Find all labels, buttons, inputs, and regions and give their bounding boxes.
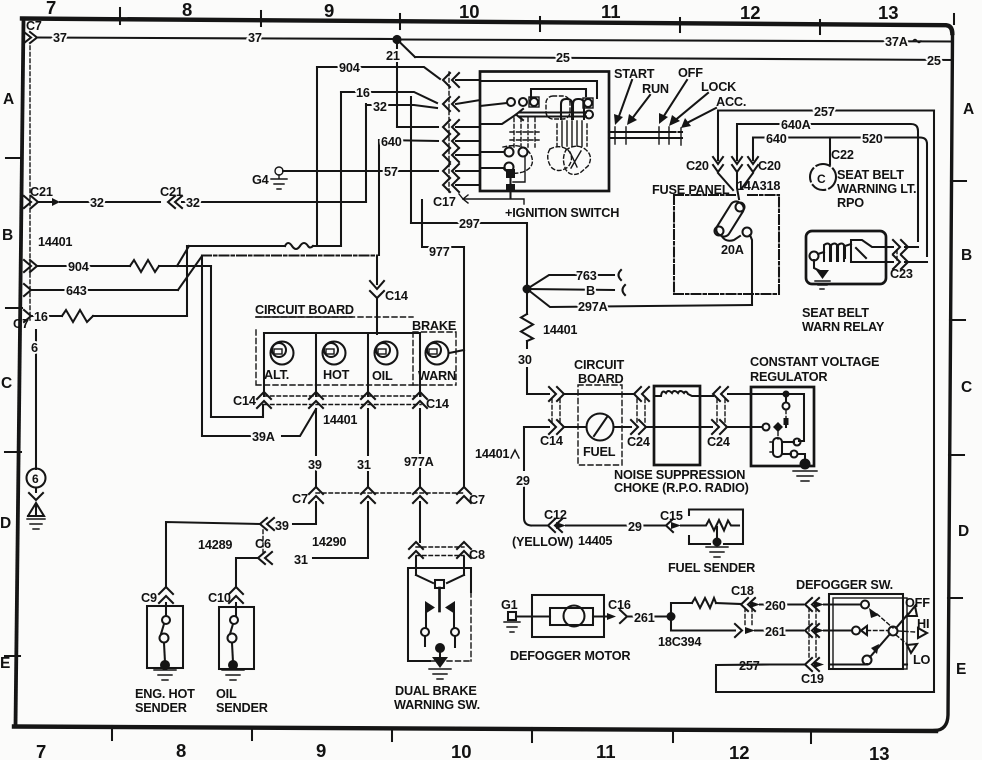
contact strip left chevron (516, 109, 523, 120)
C12 chevrons (548, 519, 555, 532)
switch pivot square (435, 580, 444, 588)
left flag contact (425, 601, 435, 614)
lamp column OIL (367, 333, 369, 396)
bottom ruler tick 1 (111, 726, 113, 740)
fuel feed chevrons C14 bottom row (549, 420, 556, 434)
svg-text:FUEL: FUEL (583, 445, 616, 459)
wire 29/C14 bottom row into board (524, 426, 549, 428)
border frame left (16, 20, 24, 726)
svg-text:C24: C24 (707, 435, 730, 449)
svg-text:640A: 640A (781, 118, 811, 132)
top ruler tick 2 (260, 11, 262, 26)
svg-text:21: 21 (386, 49, 400, 63)
indicator lamp HOT (323, 342, 346, 365)
regulator lower input contact (763, 424, 770, 431)
svg-text:C17: C17 (433, 195, 456, 209)
svg-text:SENDER: SENDER (216, 701, 268, 715)
C17 chevron pair 3 (443, 120, 459, 134)
svg-text:WARNING SW.: WARNING SW. (394, 698, 480, 712)
sender ground dot (160, 660, 170, 670)
svg-text:39: 39 (308, 458, 322, 472)
svg-text:WARNING LT.: WARNING LT. (837, 182, 916, 196)
right border tick DE (948, 597, 962, 599)
connector C20 V-arrow right (748, 157, 758, 164)
svg-text:START: START (614, 67, 655, 81)
LO ray (896, 635, 907, 644)
regulator divider chain (785, 394, 787, 402)
lamp column HOT (315, 333, 317, 396)
choke lower pass-through (654, 426, 700, 428)
wire into gauge (564, 426, 586, 428)
svg-text:39: 39 (275, 519, 289, 533)
wire 39A to diagonal (282, 409, 316, 436)
solenoid loops (561, 99, 572, 119)
lower-left terminal circle c (505, 163, 514, 172)
svg-text:257: 257 (739, 659, 760, 673)
wire 763 (527, 275, 614, 289)
wire 904 to riser (159, 265, 211, 267)
svg-text:C9: C9 (141, 591, 157, 605)
C15 chevron (666, 519, 673, 532)
wire 257 top run (718, 111, 934, 161)
sender ground bars (154, 670, 176, 680)
fuel sender box (689, 510, 743, 545)
right contact circle (451, 628, 459, 636)
connector C7 at left border (wire 37) (24, 32, 31, 43)
C14 row chevrons ALT (257, 392, 271, 399)
svg-text:A: A (3, 91, 14, 108)
svg-text:763: 763 (576, 269, 597, 283)
svg-text:C19: C19 (801, 672, 824, 686)
svg-text:32: 32 (373, 100, 387, 114)
svg-text:B: B (2, 227, 13, 244)
wire 32 top horizontal (366, 105, 437, 108)
C17 chevron pair 5 (443, 148, 459, 162)
wire 31 elbow to C6 (313, 502, 368, 558)
svg-text:BRAKE: BRAKE (412, 319, 456, 333)
C7 chevrons col 31 (361, 487, 375, 494)
C24 dashed links right (717, 399, 725, 423)
bottom ruler tick 4 (531, 728, 533, 742)
left border tick AB (6, 157, 22, 159)
riser x202 down to 39A (201, 256, 203, 437)
svg-text:18C394: 18C394 (658, 635, 701, 649)
lower-left terminal circle b (519, 148, 528, 157)
wire G1 to motor (516, 615, 550, 617)
svg-text:8: 8 (176, 740, 186, 760)
svg-text:6: 6 (31, 341, 38, 355)
regulator heater element (777, 432, 779, 439)
wire 6 vertical (35, 330, 37, 469)
cross line with choke squiggle (187, 245, 341, 247)
wire 904 top horizontal (317, 67, 440, 79)
dash-dot cross line (202, 254, 377, 256)
svg-text:C20: C20 (686, 159, 709, 173)
fuse 20A body (714, 199, 746, 239)
right border tick BC (950, 319, 965, 321)
diagonal 643 up (178, 256, 202, 290)
wire 39 to eng hot sender (166, 522, 260, 587)
lever ticks (615, 127, 681, 145)
oil sender blade (230, 624, 233, 634)
indicator lamp WARN (426, 342, 449, 365)
feed into circuit board bus (376, 299, 378, 334)
C19 chevrons row 257 (805, 658, 812, 671)
svg-text:C10: C10 (208, 591, 231, 605)
svg-text:C14: C14 (233, 394, 256, 408)
motor armature rect (550, 608, 593, 625)
ignition switch terminal circle 2 (519, 98, 527, 106)
wire 39 elbow to C6 (293, 502, 316, 524)
bottom ruler tick 6 (810, 730, 812, 743)
branch up to 260 with resistor (671, 603, 692, 617)
svg-text:14401: 14401 (475, 447, 509, 461)
ignition switch terminal circle 1 (507, 98, 515, 106)
wire 29 vertical (524, 427, 531, 526)
wire 977 into switch (463, 557, 465, 575)
svg-text:31: 31 (357, 458, 371, 472)
top ruler tick 4 (539, 17, 541, 31)
dashed connector line inside left border (29, 46, 31, 320)
wire 977A vertical (419, 409, 421, 487)
svg-text:SEAT BELT: SEAT BELT (837, 168, 904, 182)
fuel sender resistor (700, 520, 739, 531)
C6 dashed link (262, 530, 264, 552)
oil sender lead (235, 603, 237, 616)
right flag contact (445, 601, 455, 614)
wire 16 with resistor (31, 315, 62, 317)
svg-text:977A: 977A (404, 455, 434, 469)
top ruler tick 7 (953, 14, 955, 24)
ignition switch terminal circle 4 with pad (583, 98, 593, 108)
svg-text:13: 13 (869, 743, 890, 760)
wire 763 end half-connector (619, 270, 622, 280)
svg-text:DEFOGGER MOTOR: DEFOGGER MOTOR (510, 649, 630, 663)
right border tick AB (951, 180, 966, 182)
svg-text:LOCK: LOCK (701, 80, 737, 94)
riser joining 16 row to cross line (186, 246, 188, 316)
LO triangle (907, 644, 917, 653)
svg-text:14289: 14289 (198, 538, 232, 552)
connector C20 V-arrow middle (732, 157, 742, 164)
C18 arrows bottom (point right) (735, 624, 742, 637)
C14 dashed links (552, 399, 560, 423)
svg-text:C23: C23 (890, 267, 913, 281)
choke coil (654, 391, 700, 396)
resistor on 904 (130, 260, 159, 272)
relay coil (818, 244, 851, 262)
wire 16 top horizontal (341, 92, 437, 103)
small bottom trace (513, 156, 525, 182)
oil sender box (219, 607, 254, 669)
wire 32 left segment (60, 201, 160, 203)
dash-dot 261 to pivot (867, 630, 888, 632)
oil sender ground bars (222, 670, 244, 680)
lever to LO contact (870, 634, 890, 657)
svg-text:NOISE SUPPRESSION: NOISE SUPPRESSION (614, 468, 745, 482)
svg-text:CHOKE (R.P.O. RADIO): CHOKE (R.P.O. RADIO) (614, 481, 749, 495)
svg-text:C21: C21 (160, 185, 183, 199)
wire 30 resistor (526, 289, 528, 314)
C14 row chevrons WARN (413, 392, 427, 399)
left contact circle (421, 628, 429, 636)
svg-text:977: 977 (429, 245, 450, 259)
wire 261 from C16 (627, 615, 668, 617)
wire 297A (527, 289, 752, 307)
relay output wires to C23 (886, 247, 927, 262)
svg-text:640: 640 (381, 135, 402, 149)
svg-text:14405: 14405 (578, 534, 612, 548)
svg-text:ACC.: ACC. (716, 95, 746, 109)
C18 chevrons top (741, 598, 748, 611)
C17 chevron pair 6 (443, 164, 459, 178)
svg-text:C22: C22 (831, 148, 854, 162)
svg-text:C24: C24 (627, 435, 650, 449)
wire 32 mid segment (182, 201, 366, 203)
stem to box bottom (509, 178, 511, 198)
svg-text:C14: C14 (540, 434, 563, 448)
sender switch blade (161, 624, 164, 634)
wire 640 horizontal (379, 140, 438, 141)
OFF triangle (907, 606, 917, 616)
svg-text:14401: 14401 (543, 323, 577, 337)
svg-text:CIRCUIT BOARD: CIRCUIT BOARD (255, 303, 354, 317)
dashed rounded pocket (546, 96, 570, 119)
wire 977A into switch (416, 502, 420, 575)
ignition switch box (480, 72, 609, 192)
ground G4 (275, 167, 283, 175)
filled dot at box bottom (506, 184, 515, 192)
svg-text:37A: 37A (885, 35, 908, 49)
motor output (593, 615, 610, 617)
wire 640-520 run (753, 138, 927, 257)
connector C21 at border with arrow (24, 196, 31, 208)
svg-text:9: 9 (316, 740, 326, 760)
oil sender ground dot (228, 660, 238, 670)
connector C20 V-arrow left (713, 157, 723, 164)
wire 977 long vertical (463, 247, 465, 487)
svg-text:14290: 14290 (312, 535, 346, 549)
regulator top trace (751, 394, 804, 441)
dash-dot to pivot from 260 (877, 614, 893, 628)
switch bottom to 257 (829, 663, 867, 666)
svg-text:OIL: OIL (372, 369, 393, 383)
wire 977 into warn lamp (449, 350, 464, 353)
board top wire (578, 393, 622, 395)
svg-text:C14: C14 (426, 397, 449, 411)
arrow below circle (29, 488, 43, 500)
svg-text:31: 31 (294, 553, 308, 567)
switch 260 contact arrow (869, 608, 879, 618)
svg-text:7: 7 (46, 0, 56, 18)
svg-text:FUEL SENDER: FUEL SENDER (668, 561, 755, 575)
svg-text:25: 25 (927, 54, 941, 68)
dashed ladder center (514, 118, 535, 147)
ALT feed elbow (211, 406, 263, 417)
ignition switch inner trace 2 (531, 89, 586, 98)
indicator lamp ALT (271, 342, 294, 365)
svg-text:29: 29 (628, 520, 642, 534)
svg-text:643: 643 (66, 284, 87, 298)
svg-text:12: 12 (729, 742, 750, 760)
svg-text:DUAL BRAKE: DUAL BRAKE (395, 684, 477, 698)
wire 32 top riser (365, 104, 367, 202)
connector chevron 643 at border (24, 284, 31, 296)
svg-text:11: 11 (596, 741, 616, 760)
sender switch contact bottom (160, 634, 169, 643)
svg-text:C18: C18 (731, 584, 754, 598)
wire 643 (31, 289, 178, 291)
svg-text:A: A (963, 101, 974, 118)
C17 chevron pair 2 (443, 97, 459, 111)
contact strip right end circle (585, 111, 593, 119)
C24 chevrons right top (point left) (713, 387, 720, 401)
junction node on wire 37 (392, 35, 401, 44)
wire to fuel sender (681, 524, 700, 526)
heater contacts (782, 441, 794, 443)
wire 257 long right vertical (933, 111, 935, 693)
lever bottom circle (863, 656, 872, 665)
C19 chevrons row 261 (805, 624, 812, 637)
svg-text:12: 12 (740, 2, 761, 23)
fuel feed chevrons C14 top row (549, 387, 556, 401)
svg-text:RUN: RUN (642, 82, 669, 96)
circled 6 connector (27, 469, 46, 488)
contacts to ground node (425, 636, 455, 647)
connector C21 mid chevrons (168, 196, 175, 208)
wire 37A continuing right (397, 40, 952, 42)
C7 chevrons col 977 (457, 487, 471, 494)
wire 261 row (755, 629, 803, 631)
wire 29 horizontal to C12 (531, 524, 548, 526)
border frame top (22, 19, 952, 34)
riser x211 down to ALT (210, 266, 212, 417)
svg-text:BOARD: BOARD (578, 372, 624, 386)
svg-text:(YELLOW): (YELLOW) (512, 535, 573, 549)
seat belt warn relay box (806, 231, 886, 284)
svg-text:260: 260 (765, 599, 786, 613)
wire B (527, 289, 614, 290)
dashed pocket around lower-left terminals (503, 146, 532, 174)
svg-text:DEFOGGER SW.: DEFOGGER SW. (796, 578, 893, 592)
seat belt warning lamp C22 feed (829, 138, 831, 165)
G1 ground (508, 612, 516, 620)
svg-text:39A: 39A (252, 430, 275, 444)
fuse panel dash-dot box (674, 195, 779, 294)
svg-text:9: 9 (324, 0, 334, 21)
svg-text:297: 297 (459, 217, 480, 231)
connector C23 chevron top (893, 240, 900, 254)
wire 39 vertical (315, 409, 317, 487)
lower-left terminal circle a (505, 148, 514, 157)
svg-text:LO: LO (913, 653, 931, 667)
fuel feed top into board (564, 393, 578, 395)
C7 chevrons col 977A (413, 487, 427, 494)
svg-text:37: 37 (248, 31, 262, 45)
svg-text:D: D (958, 523, 969, 540)
connector C8 dashed rows (416, 547, 464, 556)
bottom ruler tick 5 (672, 729, 674, 742)
connector C14 row dashed lines (264, 396, 421, 405)
border frame bottom (14, 727, 936, 732)
switch 260 contact circle (861, 601, 869, 609)
connector C23 chevron bottom (893, 255, 900, 269)
svg-text:C7: C7 (292, 492, 308, 506)
C23 dashed link (896, 250, 898, 260)
ALT stub below row (262, 405, 264, 417)
dual brake warning switch box (408, 568, 471, 661)
svg-text:+IGNITION SWITCH: +IGNITION SWITCH (505, 206, 619, 220)
top ruler tick 6 (819, 20, 821, 34)
fuel gauge dial (587, 414, 614, 441)
C17 chevron pair 4 (443, 134, 459, 148)
svg-text:C8: C8 (469, 548, 485, 562)
left border tick CD (5, 451, 21, 453)
oil sender to ground (232, 643, 233, 662)
svg-text:WARN RELAY: WARN RELAY (802, 320, 885, 334)
svg-text:16: 16 (34, 310, 48, 324)
ignition switch terminal circle 3 with pad (529, 97, 539, 107)
lever arrowhead (871, 644, 879, 654)
svg-text:10: 10 (451, 741, 472, 760)
svg-text:C14: C14 (385, 289, 408, 303)
oil sender contact bottom (228, 634, 237, 643)
switch 261 contact arrowhead (861, 626, 867, 635)
sender lead (165, 603, 167, 616)
wires from chevrons to ignition switch (456, 79, 480, 81)
wire 16 top riser (340, 92, 342, 246)
C7 chevrons col 39 (309, 487, 323, 494)
C24 dashed links left (637, 399, 645, 423)
resistor 18C394 (692, 598, 716, 608)
wire 57 (283, 170, 438, 172)
ignition lever double line (609, 132, 682, 138)
branch down to 261 row (671, 617, 735, 631)
C14 row chevrons HOT (309, 392, 323, 399)
defogger switch box (double border) (829, 594, 903, 669)
wire 640 riser (378, 140, 380, 255)
gauge needle (594, 417, 607, 436)
svg-text:D: D (0, 515, 11, 532)
defogger motor box (532, 595, 604, 637)
svg-text:25: 25 (556, 51, 570, 65)
circuit board dashed outline (256, 317, 413, 385)
fuse output hook (721, 235, 740, 241)
svg-text:ALT.: ALT. (264, 368, 289, 382)
wires to lower terminals (480, 152, 504, 168)
brake section dashed box (413, 332, 456, 385)
resistor on 16 (62, 310, 93, 322)
contact strip double bar (519, 113, 586, 117)
C20 merge into fuse (718, 173, 753, 199)
switch plunger (438, 588, 441, 611)
wire 640A run (737, 124, 918, 241)
svg-text:C16: C16 (608, 598, 631, 612)
regulator node dot top (783, 391, 790, 398)
motor rotor circle (564, 606, 585, 627)
connector C7 row dash-dot (316, 492, 464, 494)
squiggle on cross line (285, 243, 313, 249)
svg-text:261: 261 (634, 611, 655, 625)
lamp column ALT (263, 333, 265, 396)
svg-text:ENG. HOT: ENG. HOT (135, 687, 195, 701)
wire 29 mid segment (566, 524, 666, 526)
svg-text:640: 640 (766, 132, 787, 146)
top ruler tick 5 (679, 18, 681, 32)
noise suppression choke box (654, 386, 700, 465)
bottom ruler tick 3 (391, 728, 393, 741)
C17 chevron pair 7 (443, 178, 459, 192)
